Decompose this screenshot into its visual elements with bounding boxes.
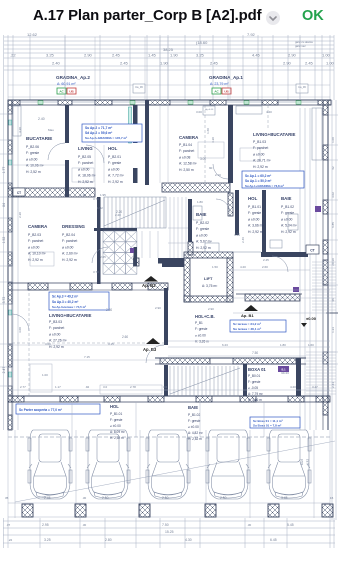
- svg-text:P_B1.01: P_B1.01: [110, 412, 122, 416]
- svg-text:.22: .22: [10, 53, 16, 58]
- svg-text:1.45: 1.45: [148, 53, 157, 58]
- svg-text:3.15: 3.15: [108, 342, 114, 346]
- svg-text:2.20: 2.20: [18, 212, 22, 218]
- svg-text:3.00: 3.00: [18, 327, 22, 333]
- svg-text:H: 3,26 m: H: 3,26 m: [195, 340, 209, 344]
- svg-text:Sc Ap.3 = 49,2 m²: Sc Ap.3 = 49,2 m²: [52, 295, 78, 299]
- svg-text:2.45: 2.45: [263, 258, 269, 262]
- svg-text:H: 2,92 m: H: 2,92 m: [78, 180, 93, 184]
- fixtures baie mid: [193, 206, 202, 220]
- door arcs: [48, 143, 65, 160]
- summary box parter: [16, 404, 100, 414]
- parking area bottom line: [8, 502, 330, 504]
- stair X-hatch block: [103, 231, 137, 274]
- svg-text:H: 2,92 m: H: 2,92 m: [253, 165, 268, 169]
- AC-UB boxes right: [212, 88, 221, 94]
- svg-text:Ap. B3: Ap. B3: [143, 347, 157, 352]
- svg-text:3.70: 3.70: [93, 197, 99, 201]
- spine wall lower: [164, 288, 168, 345]
- left dim column lines: [3, 100, 5, 430]
- svg-text:.30: .30: [82, 496, 87, 500]
- svg-text:1.80: 1.80: [280, 343, 286, 347]
- svg-text:A: 12,58 m²: A: 12,58 m²: [179, 162, 197, 166]
- svg-text:7.15: 7.15: [84, 355, 90, 359]
- svg-text:F: parchet: F: parchet: [179, 149, 194, 153]
- svg-text:P_B2.05: P_B2.05: [78, 155, 91, 159]
- svg-text:P_B2.03: P_B2.03: [28, 233, 41, 237]
- svg-text:15.25: 15.25: [165, 530, 174, 534]
- svg-text:±0.00: ±0.00: [306, 316, 317, 321]
- svg-text:.37: .37: [6, 523, 11, 527]
- car 2: [86, 430, 130, 499]
- svg-text:⌀ ±0.00: ⌀ ±0.00: [196, 233, 208, 237]
- teal sliding door: [129, 107, 132, 143]
- svg-text:BAIE: BAIE: [281, 196, 292, 201]
- stair left wall: [97, 197, 101, 284]
- svg-text:⌀ ±0.00: ⌀ ±0.00: [110, 424, 121, 428]
- left exterior wall: [7, 100, 9, 430]
- dim line 7.50: [168, 355, 306, 357]
- purple door tag stair: [130, 248, 134, 253]
- svg-text:Sc Boxa 01 = 11,1 m²: Sc Boxa 01 = 11,1 m²: [253, 419, 283, 423]
- svg-text:H: 2,52 m: H: 2,52 m: [26, 170, 41, 174]
- parking top dashed line: [8, 436, 330, 438]
- svg-text:GRADINA_Ap.2: GRADINA_Ap.2: [56, 75, 90, 80]
- svg-text:2.45: 2.45: [210, 61, 219, 66]
- svg-text:Ap. B1: Ap. B1: [241, 313, 254, 318]
- svg-text:2.46: 2.46: [241, 237, 245, 243]
- svg-text:LIVING+BUCATARIE: LIVING+BUCATARIE: [253, 132, 295, 137]
- svg-text:Sc Ap.1 = 60,2 m²: Sc Ap.1 = 60,2 m²: [245, 174, 271, 178]
- svg-text:BOXA 01: BOXA 01: [248, 367, 266, 372]
- svg-text:P_B1: P_B1: [195, 321, 203, 325]
- svg-text:Sc Parter acoperta = 77,0 m²: Sc Parter acoperta = 77,0 m²: [19, 408, 62, 412]
- svg-text:H: 2,92 m: H: 2,92 m: [62, 258, 77, 262]
- svg-text:6.23: 6.23: [222, 343, 228, 347]
- svg-text:A: 26,71 m²: A: 26,71 m²: [253, 159, 271, 163]
- svg-text:B.1: B.1: [281, 368, 286, 372]
- svg-text:CAMERA: CAMERA: [28, 224, 48, 229]
- right side fine lines upper: [312, 261, 336, 263]
- svg-text:Su terasa = 28,1 m²: Su terasa = 28,1 m²: [233, 327, 261, 331]
- furniture light rects: [72, 168, 94, 182]
- wall between BUCATARIE and LIVING: [65, 105, 69, 143]
- svg-text:2.90: 2.90: [288, 53, 297, 58]
- svg-text:P_B1.02: P_B1.02: [188, 413, 200, 417]
- svg-text:F: parchet: F: parchet: [62, 239, 77, 243]
- svg-text:F: parchet: F: parchet: [78, 161, 93, 165]
- svg-text:2.60: 2.60: [122, 335, 128, 339]
- bottom exterior wall: [8, 395, 330, 397]
- svg-text:Su Ap.3 = 40,2 m²: Su Ap.3 = 40,2 m²: [52, 300, 78, 304]
- chevron button: [266, 11, 280, 25]
- summary box Ap1: [242, 171, 304, 188]
- purple tag right wall: [315, 206, 321, 212]
- svg-text:A: 5,04 m²: A: 5,04 m²: [281, 224, 298, 228]
- svg-text:.92: .92: [85, 385, 90, 389]
- svg-text:2.50: 2.50: [106, 308, 112, 312]
- wall north of terasa B1: [236, 293, 302, 295]
- svg-text:2.78: 2.78: [130, 385, 136, 389]
- svg-text:A: 3,75 m²: A: 3,75 m²: [202, 284, 218, 288]
- svg-text:5.45: 5.45: [287, 523, 294, 527]
- svg-text:Ap. B2: Ap. B2: [142, 283, 156, 288]
- right side fine lines lower: [306, 351, 336, 353]
- svg-text:Sd Ap.2 = 59,6 m²: Sd Ap.2 = 59,6 m²: [85, 131, 113, 135]
- svg-text:GRADINA_Ap.1: GRADINA_Ap.1: [209, 75, 243, 80]
- svg-text:⌀ ±0.00: ⌀ ±0.00: [62, 245, 74, 249]
- door arc stair hall: [92, 247, 108, 263]
- terrace door arc lower-left: [12, 314, 29, 331]
- summary box terasa B1: [230, 320, 286, 332]
- svg-text:P_B1.03: P_B1.03: [253, 140, 266, 144]
- svg-text:3.0: 3.0: [103, 385, 108, 389]
- svg-text:3.0: 3.0: [163, 385, 168, 389]
- svg-text:⌀ ±0.00: ⌀ ±0.00: [188, 425, 199, 429]
- wall left of HOL right: [235, 190, 239, 235]
- svg-text:1.00: 1.00: [326, 61, 335, 66]
- svg-text:LIVING+BUCATARIE: LIVING+BUCATARIE: [49, 313, 91, 318]
- window vent marks green: [38, 101, 43, 105]
- svg-text:1.17: 1.17: [55, 385, 61, 389]
- svg-text:⌀ ±0.00: ⌀ ±0.00: [28, 245, 40, 249]
- svg-text:A: 60,91 m²: A: 60,91 m²: [57, 82, 76, 86]
- svg-text:1.60: 1.60: [308, 343, 314, 347]
- svg-text:⌀ ±0.00: ⌀ ±0.00: [26, 157, 38, 161]
- svg-text:P_B0.01: P_B0.01: [248, 374, 260, 378]
- center-left spine wall: [145, 100, 149, 185]
- svg-text:Su Ap.2 = 71,7 m²: Su Ap.2 = 71,7 m²: [85, 126, 113, 130]
- svg-text:LIVING: LIVING: [78, 146, 93, 151]
- svg-text:H: 2,92 m: H: 2,92 m: [281, 230, 296, 234]
- svg-text:2.40: 2.40: [38, 117, 45, 121]
- svg-text:F: parchet: F: parchet: [28, 239, 43, 243]
- hatched wall below CAMERA right: [162, 183, 230, 192]
- svg-text:3.00: 3.00: [45, 342, 51, 346]
- svg-text:3.25: 3.25: [196, 53, 205, 58]
- svg-text:CT: CT: [17, 191, 21, 195]
- svg-text:1.23: 1.23: [331, 327, 335, 333]
- svg-text:35: 35: [5, 496, 9, 500]
- svg-text:Ua_06: Ua_06: [298, 85, 306, 89]
- svg-text:F: parchet: F: parchet: [253, 146, 268, 150]
- svg-text:A: 7,72 m²: A: 7,72 m²: [108, 174, 125, 178]
- svg-text:P_B2.04: P_B2.04: [62, 233, 75, 237]
- svg-text:A: 10,06 m²: A: 10,06 m²: [26, 164, 44, 168]
- wall right of HOL mid: [133, 105, 138, 143]
- svg-text:P_B3.03: P_B3.03: [49, 320, 62, 324]
- svg-text:F: gresie: F: gresie: [188, 419, 201, 423]
- svg-text:.30: .30: [82, 523, 87, 527]
- svg-text:HOL+C.B.: HOL+C.B.: [195, 314, 215, 319]
- svg-text:Ua_06: Ua_06: [135, 85, 143, 89]
- svg-text:P_B2.06: P_B2.06: [26, 145, 39, 149]
- svg-text:2.50: 2.50: [102, 496, 109, 500]
- svg-text:H: 2,92 m: H: 2,92 m: [49, 345, 64, 349]
- svg-text:F: gresie: F: gresie: [110, 418, 123, 422]
- svg-text:A: 8,09 m²: A: 8,09 m²: [110, 430, 125, 434]
- svg-text:P_B1.01: P_B1.01: [248, 205, 261, 209]
- svg-text:2.90: 2.90: [84, 53, 93, 58]
- svg-text:⌀ ±0.00: ⌀ ±0.00: [49, 332, 61, 336]
- svg-text:F: gresie: F: gresie: [26, 151, 39, 155]
- svg-text:A: 2,60 m²: A: 2,60 m²: [62, 252, 79, 256]
- svg-text:Su Ap.2+GRADINA = 145,7 m²: Su Ap.2+GRADINA = 145,7 m²: [85, 136, 127, 140]
- svg-text:1.00: 1.00: [331, 137, 335, 143]
- dashed axes: [12, 342, 164, 344]
- Ap B3 marker: [146, 338, 160, 344]
- stair landing lines: [169, 197, 171, 258]
- svg-text:2.50: 2.50: [162, 496, 169, 500]
- svg-text:HOL: HOL: [248, 196, 258, 201]
- porch verticals: [71, 402, 73, 437]
- svg-text:2.05: 2.05: [100, 255, 106, 259]
- svg-text:2.90: 2.90: [155, 306, 161, 310]
- svg-text:4.20: 4.20: [211, 137, 215, 143]
- svg-text:2.20: 2.20: [116, 210, 122, 214]
- top dimension lines: [4, 36, 334, 38]
- porch columns hatched: [22, 504, 33, 517]
- svg-text:F: gresie: F: gresie: [195, 327, 208, 331]
- svg-text:2.95: 2.95: [42, 523, 49, 527]
- room interior lines: [12, 164, 65, 166]
- car 1: [28, 430, 72, 499]
- svg-text:H: 2,92 m: H: 2,92 m: [108, 180, 123, 184]
- garden area lines: [8, 84, 330, 86]
- svg-text:7.50: 7.50: [252, 351, 258, 355]
- svg-text:F: gresie: F: gresie: [196, 227, 209, 231]
- svg-text:1.00: 1.00: [322, 53, 331, 58]
- svg-text:1.95: 1.95: [100, 193, 106, 197]
- svg-text:F: gresie: F: gresie: [281, 211, 294, 215]
- svg-text:A: 18,06 m²: A: 18,06 m²: [78, 174, 96, 178]
- svg-text:⌀ ±0.00: ⌀ ±0.00: [248, 217, 260, 221]
- kitchen counters: [13, 106, 21, 136]
- svg-text:A: 27,26 m²: A: 27,26 m²: [49, 339, 67, 343]
- svg-text:HOL: HOL: [110, 404, 119, 409]
- terrace line right: [168, 346, 330, 348]
- svg-text:4.20: 4.20: [234, 233, 240, 237]
- svg-text:1.92: 1.92: [97, 206, 103, 210]
- svg-text:BAIE: BAIE: [196, 212, 207, 217]
- svg-text:A: 10,10 m²: A: 10,10 m²: [28, 252, 46, 256]
- svg-text:Su Ap.1+GRADINA = 73,8 m²: Su Ap.1+GRADINA = 73,8 m²: [245, 184, 284, 188]
- fixtures baie right: [288, 214, 298, 230]
- svg-text:gard vec: gard vec: [295, 44, 306, 48]
- stair mid wall horizontal: [94, 228, 137, 231]
- svg-text:BUCATARIE: BUCATARIE: [26, 136, 52, 141]
- svg-text:38.25: 38.25: [163, 47, 174, 52]
- svg-text:H: 2,92 m: H: 2,92 m: [248, 230, 263, 234]
- svg-text:2.45: 2.45: [120, 61, 129, 66]
- svg-text:2.90: 2.90: [283, 61, 292, 66]
- stair core right wall: [134, 247, 138, 266]
- svg-text:2.45: 2.45: [305, 61, 314, 66]
- svg-text:H: 3,26 m: H: 3,26 m: [248, 398, 262, 402]
- svg-text:H: 2,52 m: H: 2,52 m: [110, 436, 124, 440]
- corridor landing lines mid: [141, 231, 143, 258]
- svg-text:3.02: 3.02: [331, 192, 335, 198]
- svg-text:A: 7,79 m²: A: 7,79 m²: [248, 392, 263, 396]
- top exterior wall: [8, 99, 331, 101]
- svg-text:15: 15: [330, 496, 334, 500]
- svg-text:4.45: 4.45: [252, 53, 261, 58]
- svg-text:3.00: 3.00: [200, 157, 206, 161]
- right column ticks: [328, 114, 338, 116]
- corner step right: [326, 312, 338, 314]
- svg-text:Mau: Mau: [48, 128, 54, 132]
- BOXA left wall: [243, 364, 247, 396]
- svg-text:P_B2.01: P_B2.01: [108, 155, 121, 159]
- svg-text:6.85: 6.85: [331, 222, 335, 228]
- dim line y270 right: [230, 269, 310, 271]
- stair lower flight treads: [169, 366, 171, 396]
- svg-text:.22: .22: [8, 538, 13, 542]
- svg-text:1.77: 1.77: [2, 167, 6, 174]
- svg-text:P_B2.02: P_B2.02: [196, 221, 209, 225]
- svg-text:1.00: 1.00: [42, 373, 48, 377]
- svg-text:7.50: 7.50: [162, 523, 169, 527]
- interior guide verticals: [64, 37, 66, 100]
- svg-text:LIFT: LIFT: [204, 276, 213, 281]
- svg-text:F: gresie: F: gresie: [248, 211, 261, 215]
- parking stall lines: [7, 430, 9, 518]
- svg-text:⌀ -0.05: ⌀ -0.05: [248, 386, 258, 390]
- car 5: [267, 430, 311, 499]
- right dim column lines: [331, 100, 333, 520]
- svg-text:P_B1.02: P_B1.02: [281, 205, 294, 209]
- svg-text:⌀ ±0.00: ⌀ ±0.00: [281, 217, 293, 221]
- Ap B2 marker: [144, 276, 158, 282]
- Ap B1 marker: [244, 305, 258, 311]
- svg-text:3.00: 3.00: [196, 110, 202, 114]
- svg-text:A: 23,79 m²: A: 23,79 m²: [210, 82, 229, 86]
- svg-text:1.80: 1.80: [197, 200, 203, 204]
- horizontal wall y284 left: [8, 282, 168, 284]
- svg-text:F: parchet: F: parchet: [49, 326, 64, 330]
- svg-text:3.72: 3.72: [2, 297, 6, 304]
- right exterior wall: [327, 100, 329, 430]
- bottom dim lines: [3, 520, 335, 522]
- svg-text:HOL: HOL: [108, 146, 118, 151]
- svg-text:3.47: 3.47: [312, 385, 318, 389]
- svg-text:90: 90: [209, 166, 213, 170]
- svg-text:2.80: 2.80: [105, 538, 112, 542]
- svg-text:4.20: 4.20: [266, 110, 272, 114]
- svg-text:62: 62: [331, 166, 335, 170]
- terrace light lines: [233, 312, 330, 314]
- svg-text:6.45: 6.45: [270, 538, 277, 542]
- svg-text:H: 2,92 m: H: 2,92 m: [28, 258, 43, 262]
- svg-text:1.50: 1.50: [212, 265, 218, 269]
- svg-text:2.60: 2.60: [262, 265, 268, 269]
- svg-text:Hg+0.00: Hg+0.00: [205, 109, 214, 111]
- teal vent marks left wall: [9, 120, 12, 125]
- hatched wall below BUCATARIE: [8, 188, 95, 197]
- top wall window lines: [20, 101, 58, 103]
- svg-text:Su Ap.1 = 50,0 m²: Su Ap.1 = 50,0 m²: [245, 179, 271, 183]
- svg-text:⌀ ±0.00: ⌀ ±0.00: [253, 152, 265, 156]
- svg-text:H: 2,50 m: H: 2,50 m: [179, 168, 194, 172]
- car 4: [206, 430, 250, 499]
- svg-text:2.45: 2.45: [112, 53, 121, 58]
- car 3: [146, 430, 190, 499]
- AC-UB boxes left: [57, 88, 66, 94]
- wall left of BAIE mid: [188, 199, 192, 242]
- summary box Ap2 top: [82, 124, 142, 142]
- wall above BOXA: [155, 357, 306, 359]
- svg-text:2.77: 2.77: [20, 385, 26, 389]
- svg-text:2.90: 2.90: [208, 307, 214, 311]
- svg-text:4.20: 4.20: [240, 265, 246, 269]
- svg-text:H: 2,92 m: H: 2,92 m: [196, 246, 211, 250]
- svg-text:3.25: 3.25: [46, 53, 55, 58]
- left column ticks: [0, 113, 12, 115]
- svg-text:⌀ ±0.00: ⌀ ±0.00: [108, 167, 120, 171]
- svg-text:DRESSING: DRESSING: [62, 224, 86, 229]
- wall above LIFT: [158, 258, 184, 264]
- svg-text:4.20: 4.20: [18, 127, 22, 133]
- svg-text:1.60: 1.60: [206, 128, 210, 134]
- summary box BOXA: [250, 417, 300, 428]
- svg-text:⌀ ±0.00: ⌀ ±0.00: [78, 167, 90, 171]
- svg-text:1.30: 1.30: [80, 193, 86, 197]
- svg-text:2.40: 2.40: [52, 61, 61, 66]
- svg-text:3.25: 3.25: [44, 538, 51, 542]
- svg-text:⌀ ±0.00: ⌀ ±0.00: [195, 333, 206, 337]
- svg-text:BAIE: BAIE: [188, 405, 198, 410]
- svg-text:2.47: 2.47: [2, 367, 6, 374]
- svg-text:2.50: 2.50: [220, 496, 227, 500]
- svg-text:CAMERA: CAMERA: [179, 135, 199, 140]
- OK button: [302, 8, 324, 24]
- top grid verticals: [3, 35, 5, 100]
- wall below HOL-BAIE: [261, 252, 308, 257]
- CT box right: [306, 245, 319, 254]
- LIFT shaft: [162, 261, 184, 267]
- svg-text:Sc terasa = 34,2 m²: Sc terasa = 34,2 m²: [233, 322, 261, 326]
- teal band wall CAMERA: [229, 130, 233, 147]
- title: [33, 8, 261, 24]
- svg-text:1.90: 1.90: [170, 53, 179, 58]
- wall right of CAMERA: [228, 105, 233, 183]
- Ua_06 small boxes: [133, 84, 145, 93]
- BOXA right wall: [296, 358, 301, 396]
- svg-text:.30: .30: [247, 523, 252, 527]
- hatched pier below CAMERA wall: [228, 193, 233, 216]
- svg-text:A: 3,66 m²: A: 3,66 m²: [248, 224, 265, 228]
- parking diagonal ramp line: [15, 441, 335, 502]
- svg-text:84: 84: [2, 203, 6, 207]
- svg-text:F: gresie: F: gresie: [248, 380, 261, 384]
- svg-text:F: gresie: F: gresie: [108, 161, 121, 165]
- svg-text:4.30: 4.30: [185, 538, 192, 542]
- svg-text:A: 4,82 m²: A: 4,82 m²: [188, 431, 203, 435]
- svg-text:(18.60: (18.60: [196, 40, 208, 45]
- stair upper flight treads: [103, 197, 105, 228]
- purple tag terasa: [293, 287, 299, 292]
- svg-text:3.70: 3.70: [93, 270, 99, 274]
- wall between HOL and BAIE right: [262, 190, 266, 255]
- svg-text:1.52: 1.52: [2, 237, 6, 244]
- svg-text:⌀ ±0.08: ⌀ ±0.08: [179, 155, 191, 159]
- svg-text:4.32: 4.32: [306, 459, 310, 465]
- svg-text:Su Boxa 01 = 7,8 m²: Su Boxa 01 = 7,8 m²: [253, 424, 281, 428]
- svg-text:3.45: 3.45: [281, 496, 288, 500]
- svg-text:4.20: 4.20: [290, 385, 296, 389]
- svg-text:2.45: 2.45: [44, 496, 51, 500]
- svg-text:Su Ap.3+terasa = 74,5 m²: Su Ap.3+terasa = 74,5 m²: [52, 305, 86, 309]
